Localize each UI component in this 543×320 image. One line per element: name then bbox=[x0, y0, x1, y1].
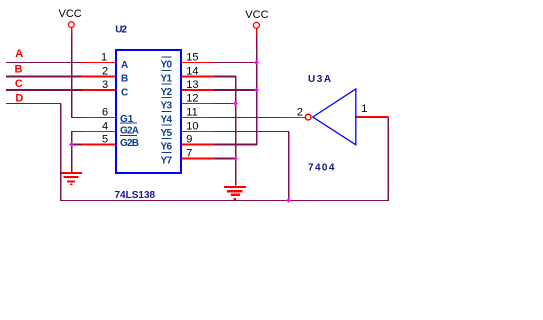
svg-text:VCC: VCC bbox=[59, 8, 82, 20]
svg-text:A: A bbox=[15, 48, 23, 60]
svg-text:Y3: Y3 bbox=[160, 101, 172, 112]
svg-text:Y4: Y4 bbox=[160, 115, 172, 126]
svg-text:B: B bbox=[15, 64, 23, 76]
svg-text:Y2: Y2 bbox=[160, 87, 172, 98]
svg-text:2: 2 bbox=[102, 66, 108, 78]
svg-text:5: 5 bbox=[102, 134, 108, 146]
svg-text:1: 1 bbox=[101, 52, 107, 64]
svg-text:A: A bbox=[121, 60, 128, 71]
svg-text:Y7: Y7 bbox=[160, 156, 172, 167]
svg-text:VCC: VCC bbox=[245, 9, 268, 21]
svg-text:Y6: Y6 bbox=[160, 142, 172, 153]
svg-text:U3A: U3A bbox=[308, 74, 333, 85]
svg-text:D: D bbox=[15, 93, 23, 105]
svg-text:3: 3 bbox=[102, 79, 108, 91]
svg-text:10: 10 bbox=[186, 121, 198, 133]
svg-text:6: 6 bbox=[102, 107, 108, 119]
svg-text:Y0: Y0 bbox=[160, 60, 172, 71]
svg-text:U2: U2 bbox=[115, 25, 127, 36]
svg-text:2: 2 bbox=[297, 107, 303, 119]
svg-text:15: 15 bbox=[186, 52, 198, 64]
svg-text:7404: 7404 bbox=[308, 163, 336, 174]
svg-text:B: B bbox=[121, 74, 128, 85]
svg-text:C: C bbox=[121, 88, 128, 99]
svg-text:4: 4 bbox=[102, 121, 108, 133]
svg-text:G2B: G2B bbox=[120, 138, 139, 149]
svg-text:Y1: Y1 bbox=[160, 74, 172, 85]
svg-text:14: 14 bbox=[186, 66, 198, 78]
svg-text:12: 12 bbox=[186, 93, 198, 105]
svg-text:9: 9 bbox=[186, 134, 192, 146]
svg-text:13: 13 bbox=[186, 79, 198, 91]
svg-text:1: 1 bbox=[361, 103, 367, 115]
svg-text:11: 11 bbox=[186, 107, 197, 119]
svg-text:Y5: Y5 bbox=[160, 128, 172, 139]
svg-text:C: C bbox=[15, 78, 23, 90]
svg-text:74LS138: 74LS138 bbox=[115, 190, 156, 201]
svg-text:7: 7 bbox=[186, 148, 192, 160]
svg-text:G2A: G2A bbox=[120, 126, 139, 137]
